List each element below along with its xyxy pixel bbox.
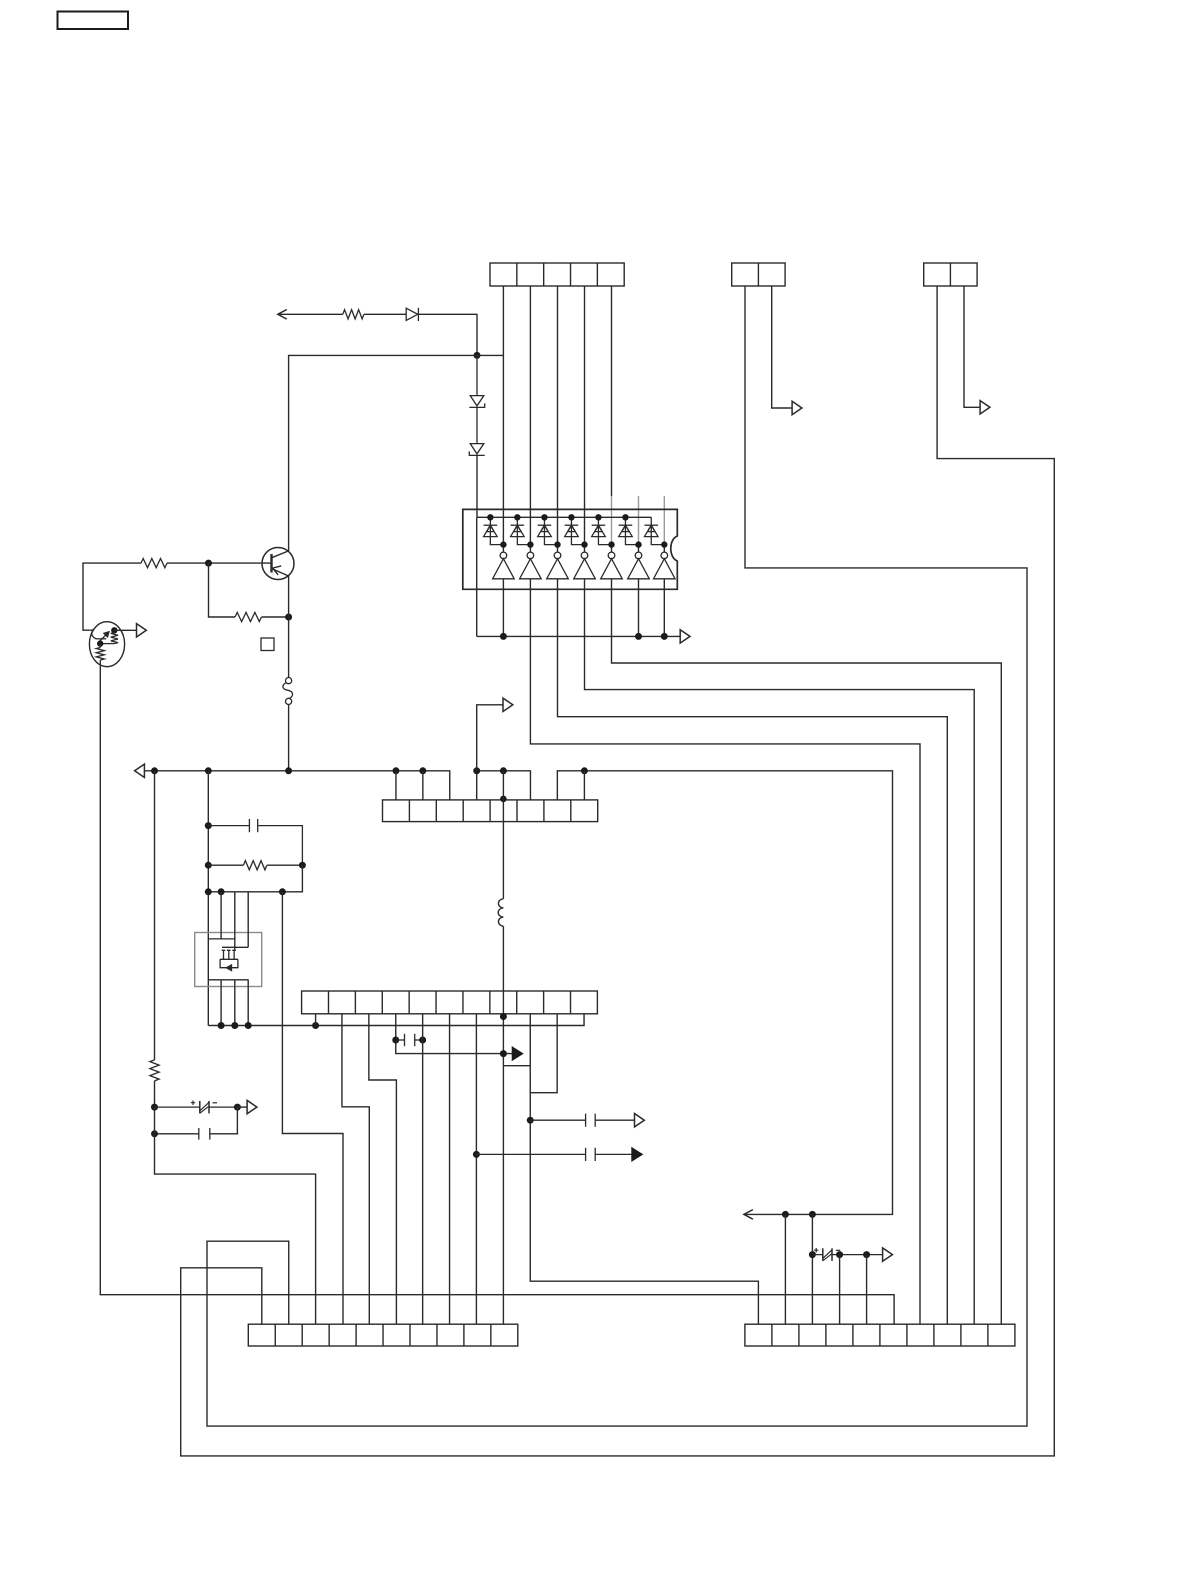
wire: [502, 771, 504, 899]
node: [568, 514, 574, 520]
wire: [396, 1014, 512, 1054]
capacitor C4: [530, 1114, 634, 1127]
node: [473, 1151, 480, 1158]
net arrow A13: [883, 1248, 893, 1261]
node: [245, 1022, 252, 1029]
node: [285, 767, 292, 774]
net arrow A3: [980, 401, 990, 414]
node: [234, 1104, 241, 1111]
connector CN5: [302, 991, 598, 1014]
zener diode D2: [469, 355, 484, 407]
wire: [234, 980, 236, 1026]
inverter U1f: [628, 552, 650, 579]
package U2 box: [195, 933, 262, 987]
connector CN6: [248, 1324, 518, 1346]
flyback diode D5: [511, 517, 531, 544]
IC U1 box: [463, 509, 678, 589]
wire: [288, 705, 290, 771]
node: [151, 1130, 158, 1137]
battery B2: [814, 1248, 840, 1261]
inverter U1a: [493, 552, 515, 579]
inverter U1b: [520, 552, 542, 579]
wire: [282, 892, 343, 1324]
inverter U1g: [654, 552, 676, 579]
inductor L1: [498, 899, 503, 926]
wire: [530, 1014, 557, 1093]
wire: [558, 579, 948, 1324]
node: [581, 767, 588, 774]
wire: [475, 1014, 477, 1324]
flyback diode D10: [644, 517, 664, 544]
title box: [58, 12, 129, 30]
wire: [155, 1107, 316, 1324]
wire: [502, 579, 504, 637]
wire: [247, 980, 249, 1026]
node: [312, 1022, 319, 1029]
wire: [167, 562, 272, 564]
wire: [422, 771, 424, 800]
wire: [784, 1214, 786, 1324]
wire: [220, 892, 222, 939]
node: [554, 541, 560, 547]
node: [581, 541, 587, 547]
wire: [638, 543, 640, 552]
wire: [262, 616, 289, 618]
node: [500, 633, 507, 640]
wire: [210, 1107, 238, 1134]
wire: [342, 1014, 369, 1324]
resistor R6: [96, 648, 104, 661]
node: [527, 1117, 534, 1124]
node: [419, 767, 426, 774]
wire: [477, 705, 504, 771]
wire: [583, 771, 585, 800]
node: [151, 767, 158, 774]
node: [279, 888, 286, 895]
net arrow A1 (left): [278, 310, 287, 320]
node: [500, 1050, 507, 1057]
node: [205, 862, 212, 869]
node: [205, 767, 212, 774]
wire: [395, 771, 397, 800]
wire: [557, 286, 559, 552]
inverter U1c: [547, 552, 569, 579]
flyback diode D4: [484, 517, 504, 544]
node: [218, 1022, 225, 1029]
resistor R1: [141, 559, 167, 568]
net arrow A5: [137, 624, 147, 637]
node N3: [285, 614, 292, 621]
net arrow A6: [135, 764, 145, 777]
net arrow A9: [635, 1114, 645, 1127]
connector CN4: [383, 800, 598, 822]
wire: [220, 980, 222, 1026]
wire: [207, 771, 209, 1026]
node N1: [474, 352, 481, 359]
wire: [209, 563, 236, 617]
wire: [812, 1254, 882, 1256]
wire: [611, 544, 613, 552]
wire: [477, 771, 531, 800]
wire: [477, 354, 503, 356]
node: [218, 888, 225, 895]
resistor R5: [111, 633, 118, 644]
flyback diode D8: [592, 517, 612, 544]
node: [809, 1251, 816, 1258]
node: [392, 767, 399, 774]
capacitor C2: [155, 1128, 210, 1140]
wire: [530, 1014, 758, 1324]
wire: [477, 516, 652, 518]
wire: [557, 771, 892, 1215]
wire: [584, 286, 586, 552]
wire: [100, 643, 114, 645]
node: [608, 541, 614, 547]
wire: [208, 1014, 584, 1026]
node: [595, 514, 601, 520]
wire: [315, 1014, 317, 1026]
node: [809, 1211, 816, 1218]
capacitor C1: [208, 819, 302, 865]
wire: [418, 314, 477, 355]
wire: [207, 286, 1027, 1426]
wire: [663, 543, 665, 552]
wire: [237, 1106, 247, 1108]
connector CN7: [745, 1324, 1015, 1346]
wire: [530, 579, 920, 1324]
thermal fuse F1: [283, 678, 293, 705]
wire: [364, 313, 406, 315]
net arrow A8 (filled): [512, 1047, 523, 1060]
resistor R4: [150, 1060, 159, 1081]
node: [622, 514, 628, 520]
wire: [247, 892, 249, 948]
node: [487, 514, 493, 520]
wire: [278, 313, 343, 315]
brush contact: [92, 629, 106, 639]
net arrow A10 (filled): [632, 1148, 643, 1161]
wire: [772, 286, 792, 408]
inverter U1e: [601, 552, 623, 579]
node N2: [205, 560, 212, 567]
capacitor C3: [396, 1034, 423, 1046]
wire: [477, 635, 681, 637]
node: [231, 1022, 238, 1029]
node: [205, 822, 212, 829]
diode D1: [406, 308, 418, 321]
zener diode D3: [469, 407, 484, 455]
node: [500, 767, 507, 774]
node: [541, 514, 547, 520]
node: [205, 888, 212, 895]
wire: [839, 1255, 841, 1325]
wire: [234, 892, 236, 950]
flyback diode D7: [565, 517, 585, 544]
capacitor C5: [476, 1148, 631, 1161]
jumper J1: [261, 638, 274, 651]
net arrow A7: [503, 698, 513, 711]
flyback diode D6: [538, 517, 558, 544]
net arrow A12 (left): [744, 1210, 753, 1220]
flyback diode D9: [619, 517, 639, 544]
node: [500, 541, 506, 547]
node: [151, 1104, 158, 1111]
transistor Q1: [262, 548, 294, 580]
node: [392, 1037, 399, 1044]
wire: [83, 563, 141, 630]
node: [97, 640, 103, 646]
wire: [529, 286, 531, 552]
wire: [144, 771, 449, 800]
wire: [289, 355, 477, 551]
wire: [502, 926, 504, 1324]
wire: [964, 286, 980, 407]
node: [500, 796, 507, 803]
inverter U1d: [574, 552, 596, 579]
node: [299, 862, 306, 869]
wire: [288, 576, 290, 678]
motor M1: [89, 622, 124, 667]
wire: [811, 1214, 813, 1324]
wire: [612, 579, 1002, 1324]
node: [514, 514, 520, 520]
wire: [369, 1014, 397, 1324]
node: [111, 627, 117, 633]
wire: [422, 1014, 424, 1324]
wire: [502, 286, 504, 355]
wire: [114, 629, 136, 631]
wire: [155, 1106, 238, 1108]
wire: [476, 455, 478, 517]
wire: [100, 667, 894, 1324]
wire: [99, 644, 101, 667]
resistor R7: [243, 861, 267, 870]
wire: [208, 865, 302, 892]
node: [863, 1251, 870, 1258]
resistor R2: [235, 612, 262, 621]
wire: [90, 629, 94, 631]
node: [661, 633, 668, 640]
node: [635, 633, 642, 640]
wire: [476, 771, 478, 800]
wire: [638, 496, 640, 543]
wire: [154, 771, 156, 1107]
wire: [449, 1014, 451, 1324]
node: [635, 541, 641, 547]
connector CN3: [924, 263, 977, 286]
node: [782, 1211, 789, 1218]
battery B1: [191, 1101, 217, 1114]
node: [836, 1251, 843, 1258]
resistor R3: [343, 310, 364, 319]
node: [527, 541, 533, 547]
wire: [181, 286, 1055, 1456]
net arrow A2: [792, 401, 802, 414]
wire: [585, 579, 975, 1324]
wire: [611, 496, 613, 544]
wire: [611, 286, 613, 496]
net arrow A11: [247, 1100, 257, 1113]
node: [661, 541, 667, 547]
node: [500, 1013, 507, 1020]
wire: [503, 1065, 530, 1067]
node: [419, 1037, 426, 1044]
wire: [638, 579, 640, 637]
net arrow A4: [680, 630, 690, 643]
wire: [476, 517, 478, 636]
wire: [866, 1255, 868, 1325]
wiper arrow: [99, 632, 109, 642]
connector CN1: [490, 263, 624, 286]
connector CN2: [732, 263, 785, 286]
wire: [502, 355, 504, 552]
node: [473, 767, 480, 774]
mosfet Q2: [208, 939, 249, 980]
wire: [208, 864, 302, 866]
wire: [663, 579, 665, 637]
wire: [663, 496, 665, 543]
